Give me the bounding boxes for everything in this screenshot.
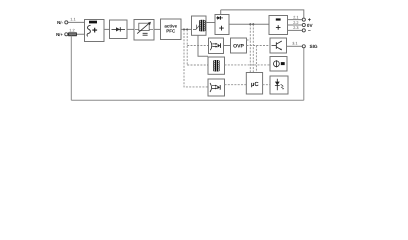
node A junction dot bbox=[183, 28, 185, 30]
wire U6 to U7 bbox=[229, 23, 269, 25]
dashed wire U11 to uC bbox=[225, 84, 247, 86]
dashed OVP tap bbox=[247, 39, 251, 41]
dashed sense v5 bbox=[255, 46, 257, 73]
wire left drop bbox=[70, 36, 72, 101]
dashed wire to aux transformer U10 bbox=[187, 64, 208, 66]
svg-text:N/-: N/- bbox=[57, 20, 63, 25]
box U5 switch and transformer bbox=[192, 16, 207, 35]
svg-text:3.1: 3.1 bbox=[292, 42, 297, 46]
terminal 2.1 bbox=[302, 18, 305, 21]
node B junction dot bbox=[186, 28, 188, 30]
svg-text:−: − bbox=[308, 28, 311, 34]
svg-text:1.1: 1.1 bbox=[70, 17, 75, 21]
wire input L top bbox=[68, 21, 85, 23]
wire U3 to U4 bbox=[154, 28, 161, 30]
wire U4 to U5 bbox=[181, 28, 192, 30]
svg-text:PFC: PFC bbox=[166, 29, 176, 34]
diode D2 in U6 bbox=[216, 17, 223, 19]
box U8 optocoupler bbox=[209, 38, 224, 54]
LED symbols bbox=[275, 82, 280, 86]
wire right riser bbox=[303, 48, 305, 100]
diode D1 in U2 bbox=[112, 28, 126, 30]
opto U8 symbol bbox=[210, 41, 212, 50]
svg-text:2.2: 2.2 bbox=[293, 21, 298, 25]
wire top plus rail bbox=[221, 10, 304, 18]
svg-text:2.1: 2.1 bbox=[293, 15, 298, 19]
dashed sense v3 bbox=[249, 24, 251, 72]
transformer T2 core bbox=[215, 60, 216, 72]
svg-text:µC: µC bbox=[251, 81, 259, 88]
box U10 aux transformer bbox=[208, 57, 225, 74]
box U11 feedback opto bbox=[208, 79, 225, 96]
varistor element in U1 bbox=[87, 25, 91, 36]
wire U5 bottom drop bbox=[198, 35, 208, 56]
svg-text:SIG: SIG bbox=[310, 44, 318, 49]
dashed control v1 from node A bbox=[184, 29, 208, 87]
fuse F1 on input wire bbox=[69, 33, 77, 36]
box U6 output rectifier bbox=[215, 15, 229, 35]
capacitor C1 in U6 bbox=[219, 26, 224, 31]
box U1 input fuse/varistor/rectifier bbox=[85, 20, 105, 42]
svg-text:OVP: OVP bbox=[233, 44, 244, 50]
box U13 potentiometer bbox=[270, 57, 287, 72]
capacitor C2 in U7 bbox=[276, 25, 281, 30]
box U4 active PFC bbox=[161, 19, 182, 40]
wire U8 to OVP bbox=[224, 45, 231, 47]
box U14 LED indicators bbox=[270, 76, 288, 94]
bridge rectifier plus in U1 bbox=[92, 28, 97, 33]
switch Q1 in U5 bbox=[193, 25, 200, 30]
dashed wire to opto U8 bbox=[187, 45, 208, 47]
wire U6 top riser bbox=[220, 10, 222, 15]
terminal 2.3 bbox=[302, 29, 305, 32]
display bar bbox=[281, 62, 285, 65]
wire input N bottom bbox=[68, 33, 85, 35]
dashed row OVP to Q2 bbox=[247, 45, 271, 47]
transistor Q2 symbol bbox=[272, 41, 282, 50]
fuse element in U1 bbox=[89, 21, 97, 24]
terminal 1.2 bbox=[65, 33, 68, 36]
wire U5 to U6 bbox=[206, 22, 215, 24]
box U9 OVP bbox=[231, 38, 247, 53]
box Q2 signal transistor bbox=[270, 38, 287, 53]
svg-text:N/+: N/+ bbox=[56, 32, 63, 37]
wire U2 to U3 bbox=[127, 28, 134, 30]
transformer T1 core bbox=[201, 20, 202, 32]
terminal 2.2 bbox=[302, 23, 305, 26]
terminal 1.1 bbox=[65, 21, 68, 24]
dashed sense v4 bbox=[252, 24, 254, 72]
wire Q2 to terminal 3.1 bbox=[287, 45, 303, 47]
terminal 3.1 SIG bbox=[302, 45, 305, 48]
box U12 microcontroller bbox=[246, 73, 262, 95]
dashed wire U10 to U13 bbox=[225, 64, 271, 66]
box U3 inrush limiter bbox=[134, 20, 154, 41]
node D junction dot bbox=[252, 23, 254, 25]
box U7 output filter bbox=[269, 16, 288, 35]
wire through U3 bbox=[135, 28, 153, 30]
transformer T1 windings bbox=[199, 20, 200, 31]
opto U11 symbol bbox=[210, 83, 212, 92]
box U2 diode stage bbox=[110, 20, 128, 39]
svg-text:1.2: 1.2 bbox=[69, 29, 74, 33]
wire U7 to terminal 2.2 bbox=[288, 24, 303, 26]
potentiometer symbol bbox=[274, 61, 280, 67]
node C junction dot bbox=[249, 23, 251, 25]
wire U1 to U2 bbox=[104, 28, 110, 30]
limiter rect in U3 bbox=[139, 23, 149, 30]
wire U7 to terminal 2.1 bbox=[288, 19, 303, 21]
dashed control v2 from node B bbox=[186, 29, 188, 65]
svg-text:0V: 0V bbox=[307, 23, 314, 28]
wire U7 to terminal 2.3 bbox=[288, 29, 303, 31]
wire bottom rail bbox=[71, 99, 303, 101]
transformer T2 windings bbox=[213, 61, 214, 71]
capacitor mark in U3 bbox=[143, 33, 148, 35]
dashed wire uC to U14 bbox=[263, 84, 270, 86]
limiter arrow in U3 bbox=[137, 23, 150, 34]
inductor bar in U7 bbox=[276, 18, 281, 20]
svg-text:2.3: 2.3 bbox=[293, 26, 298, 30]
